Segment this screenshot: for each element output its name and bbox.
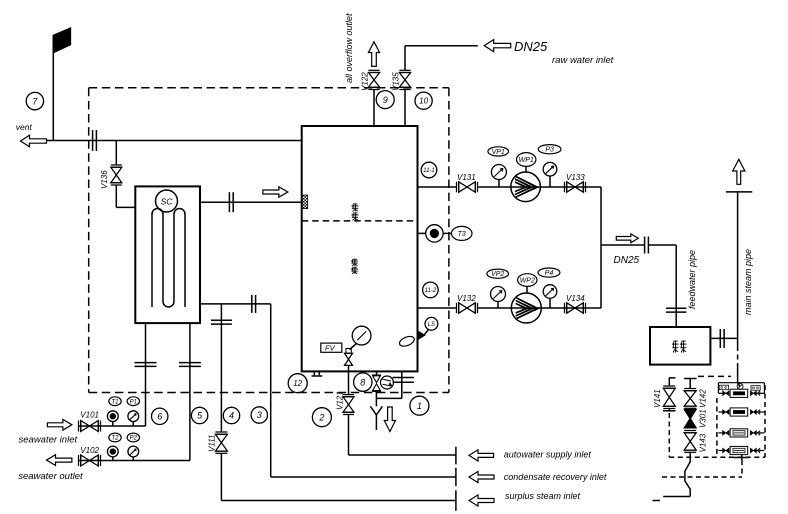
svg-text:autowater supply inlet: autowater supply inlet [504,450,592,460]
svg-text:T2: T2 [111,436,119,442]
svg-text:raw water inlet: raw water inlet [552,55,614,66]
svg-text:V132: V132 [457,294,476,303]
svg-text:DN25: DN25 [514,39,548,54]
svg-text:VP1: VP1 [492,149,505,156]
svg-text:P1: P1 [130,399,137,405]
svg-text:9: 9 [383,95,388,105]
svg-text:8: 8 [360,377,365,387]
svg-text:WP1: WP1 [519,157,534,164]
svg-text:T3: T3 [458,231,466,238]
svg-text:V131: V131 [457,173,476,182]
svg-text:V301: V301 [699,409,708,428]
svg-text:DN25: DN25 [614,255,640,266]
svg-text:condensate recovery inlet: condensate recovery inlet [504,472,607,482]
svg-text:12: 12 [293,379,302,388]
svg-text:4: 4 [229,411,234,421]
svg-text:V136: V136 [100,170,109,189]
svg-text:10: 10 [419,97,428,106]
svg-text:V143: V143 [699,433,708,452]
svg-text:P4: P4 [545,270,554,277]
svg-text:11-1: 11-1 [423,168,435,174]
svg-text:V135: V135 [392,72,401,91]
svg-text:1: 1 [417,401,422,411]
svg-text:surplus steam inlet: surplus steam inlet [505,491,581,501]
svg-text:V142: V142 [699,389,708,408]
svg-text:V133: V133 [566,173,585,182]
svg-text:V111: V111 [208,435,217,453]
svg-text:V141: V141 [653,389,662,408]
svg-text:seawater inlet: seawater inlet [19,435,78,446]
svg-text:all overflow outlet: all overflow outlet [344,13,354,83]
svg-text:11-2: 11-2 [425,288,437,294]
svg-text:P2: P2 [130,436,138,442]
svg-text:V102: V102 [80,446,99,455]
svg-text:3: 3 [257,410,262,420]
svg-text:P3: P3 [545,147,554,154]
svg-text:feedwater pipe: feedwater pipe [687,250,697,309]
svg-text:LS: LS [428,322,435,328]
svg-text:FV: FV [325,344,336,353]
svg-text:main steam pipe: main steam pipe [743,249,753,315]
svg-text:seawater outlet: seawater outlet [18,471,83,482]
svg-text:6: 6 [157,412,162,422]
svg-text:V101: V101 [80,411,99,420]
svg-text:SC: SC [161,197,174,207]
svg-text:V121: V121 [336,391,345,410]
svg-text:V122: V122 [361,72,370,91]
svg-text:2: 2 [318,412,324,422]
svg-text:WP2: WP2 [520,278,535,285]
svg-text:VP2: VP2 [491,271,504,278]
svg-text:T1: T1 [111,399,118,405]
svg-text:V134: V134 [566,294,585,303]
svg-text:vent: vent [16,122,33,132]
